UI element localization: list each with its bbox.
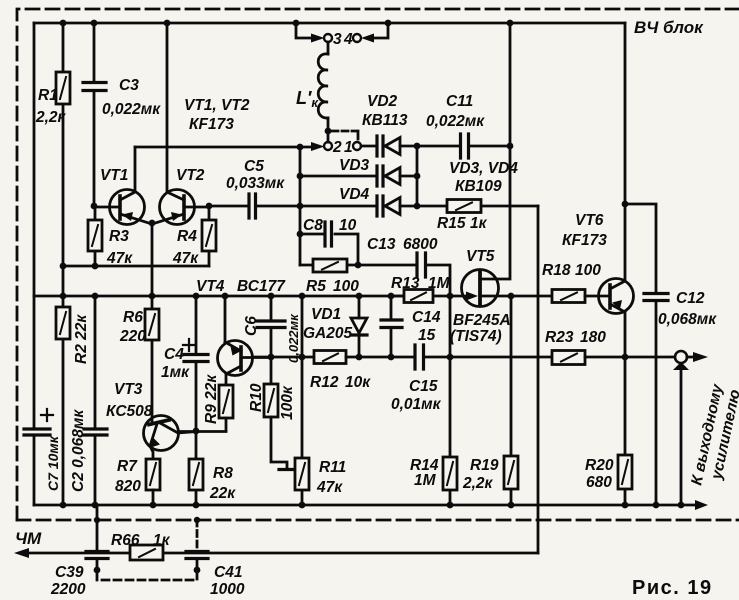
switch contact 4 (353, 34, 361, 42)
resistor R18 (552, 290, 585, 303)
varicap VD4 (300, 205, 376, 208)
svg-text:С15: С15 (409, 378, 438, 395)
svg-text:R18: R18 (542, 262, 571, 279)
svg-text:0,033мк: 0,033мк (226, 175, 285, 192)
capacitor C12 (625, 204, 656, 505)
resistor R11 (301, 296, 304, 505)
svg-text:15: 15 (418, 327, 436, 344)
resistor R5 (300, 264, 417, 267)
svg-text:R11: R11 (319, 459, 346, 476)
svg-text:ВЧ блок: ВЧ блок (634, 18, 704, 37)
svg-text:С8: С8 (303, 217, 323, 234)
svg-text:10: 10 (339, 217, 357, 234)
svg-text:3: 3 (333, 31, 342, 48)
switch contact 2 (324, 142, 332, 150)
svg-text:КС508: КС508 (106, 403, 153, 420)
svg-text:VT5: VT5 (466, 248, 495, 265)
svg-text:R19: R19 (470, 457, 499, 474)
svg-text:1М: 1М (414, 472, 437, 489)
switch contact 1 (353, 142, 361, 150)
wire oscillator bus x300 (299, 147, 302, 265)
capacitor C13 (417, 253, 426, 277)
svg-text:R20: R20 (585, 457, 614, 474)
diode VD1 (358, 296, 361, 318)
svg-text:0,022мк: 0,022мк (426, 113, 485, 130)
resistor R3 (94, 206, 97, 266)
svg-text:R15: R15 (437, 215, 466, 232)
svg-text:6800: 6800 (403, 236, 438, 253)
svg-text:R23: R23 (545, 329, 574, 346)
svg-text:180: 180 (580, 329, 606, 346)
svg-text:R5: R5 (306, 278, 326, 295)
wire varicap cathode tie x417 (416, 146, 419, 206)
capacitor C2 (94, 296, 97, 505)
switch contact 3 (324, 34, 332, 42)
svg-text:820: 820 (115, 478, 141, 495)
svg-text:1к: 1к (153, 532, 171, 549)
svg-text:С3: С3 (119, 77, 139, 94)
capacitor C14 (390, 296, 393, 357)
svg-text:R7: R7 (117, 458, 138, 475)
svg-text:ЧМ: ЧМ (15, 529, 42, 548)
wire top supply rail (34, 22, 625, 25)
svg-text:VD4: VD4 (339, 186, 370, 203)
transistor VT5 (JFET) (462, 270, 499, 307)
svg-text:47к: 47к (106, 250, 133, 267)
node coil bottom (325, 128, 332, 135)
svg-text:1: 1 (344, 139, 353, 156)
resistor R19 (510, 296, 513, 505)
FM output line with arrow (20, 552, 538, 555)
svg-text:GA205: GA205 (303, 325, 352, 342)
transistor VT3 (144, 416, 179, 451)
wire left bus (with C7 gap) (33, 23, 36, 505)
svg-text:2: 2 (332, 139, 342, 156)
svg-text:С6: С6 (243, 316, 260, 336)
svg-text:47к: 47к (172, 250, 199, 267)
resistor R8 (195, 431, 198, 505)
junction nodes (60, 20, 685, 524)
svg-text:VD2: VD2 (367, 93, 398, 110)
svg-text:С14: С14 (412, 309, 441, 326)
svg-text:Рис. 19: Рис. 19 (632, 577, 713, 599)
svg-text:С2 0,068мк: С2 0,068мк (70, 409, 87, 492)
wire dashed shield link C39-C41 (97, 573, 197, 580)
wire mid vertical x450 (gate node) (449, 296, 452, 505)
wire dashed link coil to contact 1 (332, 131, 358, 140)
svg-text:КF173: КF173 (562, 232, 607, 249)
inductor Lk coil (327, 42, 330, 54)
wire VT1 collector to bus (135, 146, 300, 149)
svg-text:R3: R3 (109, 228, 129, 245)
svg-text:С4: С4 (164, 346, 184, 363)
capacitor C11 (417, 145, 510, 148)
capacitor C4 (195, 296, 198, 431)
svg-text:R1: R1 (38, 87, 58, 104)
resistor R23 (552, 351, 585, 365)
capacitor C15 (415, 345, 424, 369)
svg-text:2,2к: 2,2к (35, 109, 67, 126)
svg-text:С13: С13 (367, 236, 396, 253)
wire supply branch to contact 4 (371, 23, 388, 38)
wire R3/R4 bottom tie line (63, 265, 209, 268)
resistor R10 (270, 357, 273, 384)
svg-text:R13: R13 (391, 275, 420, 292)
resistor R14 (443, 457, 457, 490)
capacitor C5 (249, 194, 256, 218)
svg-text:1М: 1М (428, 275, 451, 292)
svg-text:100: 100 (575, 262, 601, 279)
svg-text:R6: R6 (123, 309, 143, 326)
svg-text:VD3, VD4: VD3, VD4 (449, 160, 518, 177)
transistor VT1 (110, 190, 145, 225)
resistor R66 (130, 545, 163, 560)
resistor R1 (62, 23, 65, 296)
svg-text:R10: R10 (248, 383, 265, 412)
svg-text:R4: R4 (177, 228, 197, 245)
resistor R7 (146, 459, 160, 490)
svg-text:1000: 1000 (210, 581, 245, 598)
svg-text:2,2к: 2,2к (462, 475, 494, 492)
svg-text:4: 4 (343, 31, 353, 48)
transistor VT4 (218, 341, 253, 376)
varicap VD3 (300, 175, 376, 178)
capacitor C39 (96, 505, 99, 567)
svg-text:BF245A: BF245A (453, 312, 511, 329)
wire C11/drain supply vertical x510 (481, 23, 510, 279)
output terminal (675, 351, 687, 363)
svg-text:VT1, VT2: VT1, VT2 (184, 97, 250, 114)
svg-text:R66: R66 (111, 532, 140, 549)
svg-text:(TIS74): (TIS74) (450, 328, 502, 345)
svg-text:VT2: VT2 (176, 167, 205, 184)
transistor VT2 (160, 190, 195, 225)
svg-text:1мк: 1мк (161, 364, 190, 381)
svg-text:2200: 2200 (50, 581, 86, 598)
svg-text:С11: С11 (446, 93, 473, 110)
wire AFC line down x538 (537, 206, 540, 553)
capacitor C3 (93, 23, 96, 206)
wire ground rail (34, 504, 701, 507)
svg-text:С41: С41 (214, 564, 242, 581)
wire supply branch to contact 3 (296, 23, 314, 38)
svg-text:0,068мк: 0,068мк (658, 311, 717, 328)
svg-text:С39: С39 (55, 564, 84, 581)
svg-text:47к: 47к (316, 479, 343, 496)
svg-text:КВ113: КВ113 (362, 112, 408, 129)
svg-text:КF173: КF173 (189, 116, 234, 133)
varicap VD2 (361, 145, 376, 148)
svg-text:100к: 100к (279, 385, 296, 420)
svg-text:680: 680 (586, 474, 612, 491)
svg-text:С12: С12 (676, 290, 705, 307)
svg-text:VT1: VT1 (100, 167, 128, 184)
resistor R13 (391, 295, 471, 298)
capacitor C41 (196, 520, 199, 549)
resistor R9 (219, 385, 233, 418)
svg-text:R8: R8 (213, 465, 233, 482)
svg-text:100: 100 (333, 278, 359, 295)
svg-text:КВ109: КВ109 (455, 178, 502, 195)
svg-text:0,022мк: 0,022мк (286, 313, 301, 363)
resistor R2 (62, 296, 65, 505)
svg-text:VD3: VD3 (339, 157, 370, 174)
svg-text:220: 220 (119, 328, 146, 345)
svg-text:VT4: VT4 (196, 278, 225, 295)
svg-text:R12: R12 (310, 374, 339, 391)
resistor R20 (624, 357, 627, 505)
svg-text:VT3: VT3 (114, 381, 143, 398)
wire VT2 base line to C5 (209, 205, 248, 208)
capacitor C8 (300, 234, 358, 265)
svg-text:0,022мк: 0,022мк (102, 101, 161, 118)
resistor R12 (314, 351, 346, 364)
svg-text:R2 22к: R2 22к (73, 314, 90, 364)
capacitor C7 (24, 429, 50, 435)
svg-text:С5: С5 (244, 158, 264, 175)
resistor R4 (208, 206, 211, 266)
svg-text:10к: 10к (345, 374, 371, 391)
wire arrow into contact 2 (300, 146, 316, 149)
transistor VT6 (599, 279, 634, 314)
svg-text:1к: 1к (470, 215, 488, 232)
svg-text:С7 10мк: С7 10мк (45, 435, 61, 491)
capacitor C6 (270, 296, 273, 357)
resistor R15 (417, 205, 538, 208)
svg-text:22к: 22к (209, 485, 236, 502)
svg-text:VT6: VT6 (575, 212, 604, 229)
svg-text:R9 22к: R9 22к (203, 374, 220, 424)
wire VT4 base line (253, 356, 314, 359)
wire rail A (main mid rail) (34, 295, 404, 298)
svg-text:0,01мк: 0,01мк (391, 396, 442, 413)
svg-text:ВС177: ВС177 (237, 278, 286, 295)
svg-text:VD1: VD1 (311, 306, 341, 323)
wire VT5 source line to R18 (512, 295, 552, 298)
wire VT1/VT2 emitter junction down (151, 224, 154, 296)
wire N1 node tie (180, 430, 226, 433)
resistor R6 (151, 296, 154, 421)
